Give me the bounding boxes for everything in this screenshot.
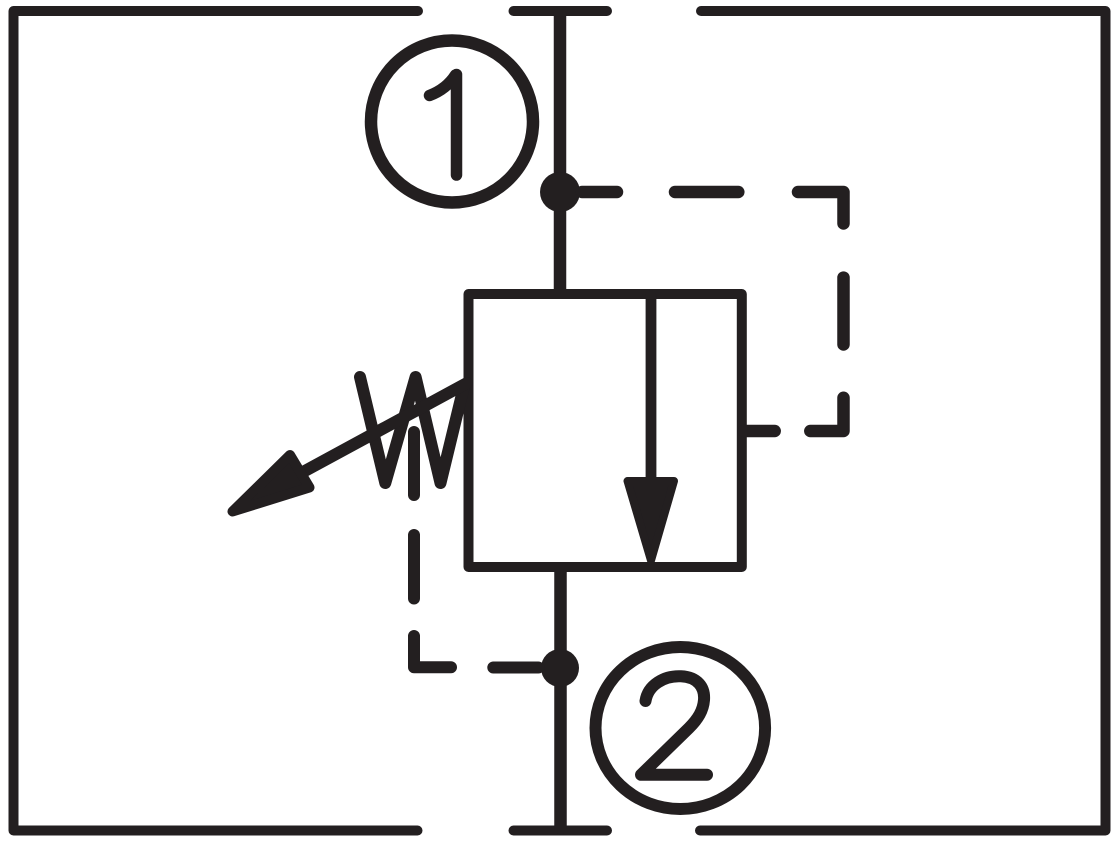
flow arrow shaft inside valve xyxy=(646,296,657,482)
node: junction dot at port 2 xyxy=(541,649,579,687)
enclosure frame left/top-left segment xyxy=(14,11,419,831)
pilot line dash 1 (from junction dot rightward) xyxy=(582,186,617,199)
pilot line corner dash (bottom) xyxy=(810,398,843,431)
enclosure frame top middle segment xyxy=(514,6,608,16)
wire: port 2 vertical line from valve body to bottom border xyxy=(554,569,567,828)
wire: port 1 vertical line from top border to valve body xyxy=(554,13,567,292)
port label circle 1 xyxy=(371,41,533,203)
valve body square U1 xyxy=(469,294,742,567)
drain line dash 2 xyxy=(408,535,420,599)
adjustment arrow head xyxy=(233,455,310,512)
drain line corner dash xyxy=(414,636,451,667)
pilot line dash 3 (vertical) xyxy=(837,278,850,345)
flow arrow head inside valve xyxy=(628,481,675,561)
enclosure frame bottom middle segment xyxy=(514,826,608,836)
pilot line corner dash (top right) xyxy=(798,192,844,224)
spring (zigzag) on valve left side xyxy=(360,377,464,483)
pilot line dash 4 (to valve right edge) xyxy=(744,425,775,438)
pilot line dash 2 xyxy=(675,186,738,199)
adjustment arrow shaft (diagonal through spring) xyxy=(303,383,467,472)
drain line dash 1 (vertical below spring) xyxy=(408,432,420,495)
drain line dash 3 (to junction dot at port 2) xyxy=(493,662,538,674)
port label text 2 xyxy=(641,676,707,775)
node: junction dot at port 1 xyxy=(540,172,580,212)
enclosure frame right/top-right/bottom-right segment xyxy=(700,11,1106,831)
port label circle 2 xyxy=(596,647,766,809)
port label text 1 xyxy=(430,75,457,176)
